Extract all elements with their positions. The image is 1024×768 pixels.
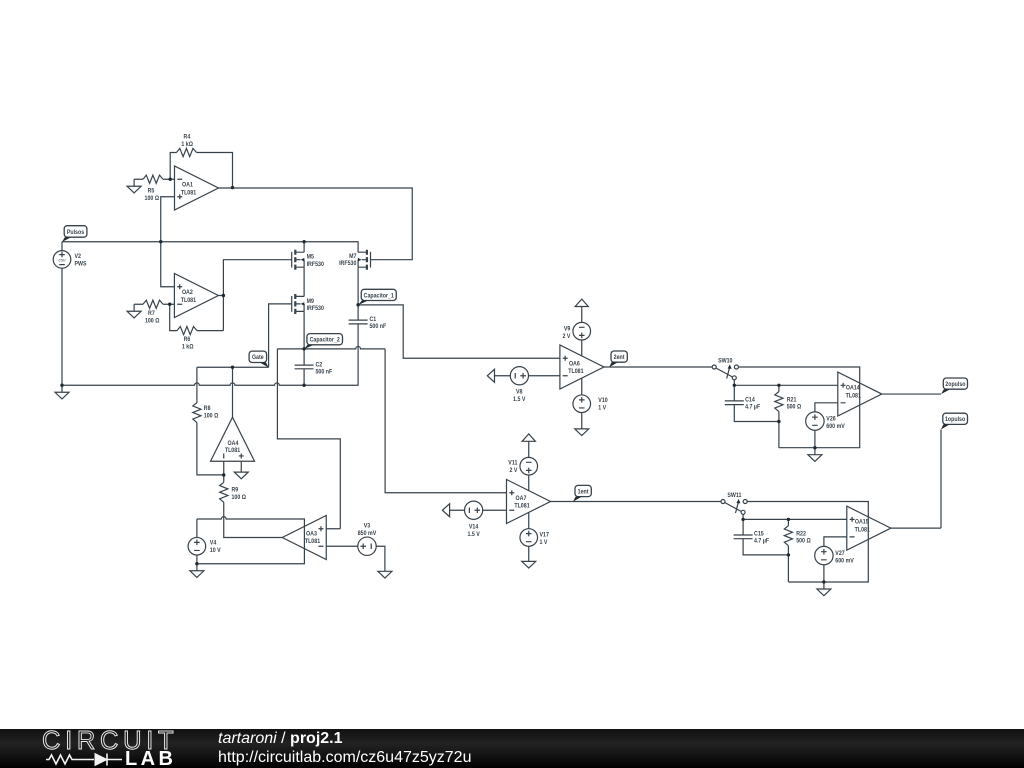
resistor R4 — [177, 148, 197, 156]
label M7 — [339, 253, 357, 267]
svg-text:TL081: TL081 — [181, 297, 197, 304]
wire: M5 source to M9 drain — [303, 267, 305, 296]
node: V4 bottom — [195, 562, 198, 565]
label V17 — [540, 532, 550, 547]
svg-text:V2: V2 — [75, 253, 82, 260]
svg-text:R22: R22 — [796, 530, 806, 537]
wire: M5 drain stub riser — [303, 242, 305, 252]
svg-text:R21: R21 — [787, 396, 797, 403]
node: Pulsos row / M5 drain — [302, 240, 305, 243]
svg-text:100 Ω: 100 Ω — [204, 412, 219, 419]
wire: C1 top lead — [357, 305, 359, 320]
wire: OA7 output to SW11 — [551, 501, 722, 503]
svg-text:TL081: TL081 — [225, 447, 241, 454]
svg-text:V11: V11 — [508, 460, 517, 467]
svg-text:V4: V4 — [210, 539, 217, 546]
svg-text:V8: V8 — [516, 388, 523, 395]
svg-text:SW10: SW10 — [718, 357, 733, 364]
svg-text:500 nF: 500 nF — [316, 369, 333, 376]
node: R21 top — [777, 384, 780, 387]
svg-text:1 kΩ: 1 kΩ — [182, 343, 194, 350]
wire: OA4 inverting input lead — [223, 461, 225, 475]
node: V26 on rail — [813, 446, 816, 449]
input arrow flag at V8 — [487, 369, 494, 382]
wire: OA15 output to 1opulso — [891, 429, 941, 528]
node: V2 ground — [60, 384, 63, 387]
ground at V3 — [378, 571, 392, 578]
V+ flag above V9 — [575, 299, 588, 306]
node: OA2 inverting — [168, 303, 171, 306]
svg-text:OA14: OA14 — [846, 384, 860, 391]
svg-text:1 V: 1 V — [598, 405, 606, 412]
svg-text:Capacitor_1: Capacitor_1 — [364, 292, 394, 299]
wire: V2 leads — [61, 242, 63, 386]
input arrow flag at V14 — [442, 504, 449, 517]
svg-text:1.5 V: 1.5 V — [513, 396, 526, 403]
wire: SW11 common down to row — [743, 514, 847, 519]
wire: V17 leads — [528, 512, 530, 561]
svg-text:100 Ω: 100 Ω — [145, 318, 160, 325]
svg-text:OA2: OA2 — [182, 289, 193, 296]
wire: ground bus with hops — [62, 324, 358, 385]
svg-text:M9: M9 — [307, 298, 315, 305]
wire: SW10 common down to row — [734, 380, 838, 386]
svg-text:C1: C1 — [370, 316, 377, 323]
flag Pulsos — [64, 226, 87, 238]
svg-text:C15: C15 — [754, 530, 764, 537]
node: C2 bottom on bus — [302, 384, 305, 387]
capacitor C14 — [725, 401, 744, 405]
label M9 — [307, 298, 325, 312]
op-amp OA3 — [282, 516, 326, 560]
wire: R8 column — [197, 367, 224, 475]
voltage source V8 — [510, 367, 528, 385]
wire: R4 feedback loop of OA1 — [170, 153, 232, 188]
label V9 — [563, 325, 571, 340]
flag Gate — [249, 351, 267, 362]
transistor M5 — [292, 250, 305, 270]
svg-text:IRF530: IRF530 — [307, 261, 325, 268]
svg-text:500 Ω: 500 Ω — [787, 403, 802, 410]
node: R8/R9/OA4- — [222, 473, 225, 476]
flag 1ent — [575, 485, 591, 496]
svg-text:C14: C14 — [745, 396, 755, 403]
voltage source V11 — [520, 457, 538, 475]
flag Capacitor_2 — [307, 334, 343, 345]
wire: OA4 output up to Gate row — [232, 367, 234, 417]
resistor R5 — [143, 175, 163, 183]
voltage source V14 — [465, 501, 483, 519]
svg-text:10 V: 10 V — [210, 547, 221, 554]
wire: OA1 output to M7 gate — [219, 188, 413, 260]
svg-text:4.7 µF: 4.7 µF — [745, 403, 760, 410]
svg-text:V9: V9 — [564, 325, 571, 332]
label V2 — [75, 253, 87, 268]
op-amp OA6 — [560, 345, 604, 389]
svg-text:1 V: 1 V — [540, 539, 548, 546]
label R22 — [796, 530, 811, 544]
label C15 — [754, 530, 769, 544]
label R8 — [204, 405, 219, 420]
label V10 — [598, 397, 608, 412]
op-amp OA15 — [847, 506, 891, 550]
svg-text:M5: M5 — [307, 254, 315, 261]
CircuitLab logo — [42, 727, 178, 756]
wire: V4 loop with hop over R9 — [197, 517, 305, 564]
transistor M7 — [358, 250, 371, 270]
logo resistor-diode glyph — [46, 754, 122, 766]
wire: V26 leads — [815, 403, 838, 448]
wire: V4 leads — [196, 519, 198, 564]
svg-text:OA6: OA6 — [569, 360, 580, 367]
svg-text:600 mV: 600 mV — [826, 423, 845, 430]
node: Pulsos row / OA1+ — [159, 240, 162, 243]
svg-text:500 Ω: 500 Ω — [796, 538, 811, 545]
svg-text:V3: V3 — [364, 522, 371, 529]
wire: Gate row — [197, 366, 269, 368]
node: R5/R4 at OA1 inverting — [169, 178, 172, 181]
svg-text:V14: V14 — [469, 523, 479, 530]
flag Capacitor_1 — [361, 289, 396, 300]
resistor R7 — [143, 300, 163, 308]
svg-text:OA1: OA1 — [182, 182, 193, 189]
svg-text:R8: R8 — [204, 405, 211, 412]
svg-text:Pulsos: Pulsos — [67, 229, 85, 236]
svg-text:TL081: TL081 — [514, 503, 530, 510]
ground at V2 — [55, 385, 69, 399]
resistor R21 — [775, 392, 783, 412]
svg-text:TL081: TL081 — [846, 392, 862, 399]
flag 2ent — [611, 351, 627, 362]
V- flag below V10 — [575, 429, 589, 436]
svg-text:SW11: SW11 — [727, 492, 741, 499]
voltage source V17 — [520, 529, 538, 547]
label C1 — [370, 316, 387, 330]
op-amp OA1 — [175, 166, 219, 210]
svg-text:V26: V26 — [826, 415, 836, 422]
label V27 — [835, 550, 854, 565]
node: V27 on rail — [822, 580, 825, 583]
svg-text:R9: R9 — [232, 487, 239, 494]
svg-text:R7: R7 — [148, 310, 155, 317]
label C2 — [316, 361, 333, 375]
wire: M5 gate from OA2 output — [218, 260, 291, 331]
op-amp OA4 — [211, 417, 255, 461]
voltage source V2 (CSV/PWS) — [53, 251, 71, 269]
V+ flag above V11 — [522, 434, 535, 441]
voltage source V9 — [573, 322, 591, 340]
capacitor C15 — [734, 535, 753, 539]
svg-text:IRF530: IRF530 — [307, 305, 325, 312]
svg-text:100 Ω: 100 Ω — [145, 195, 160, 202]
ground at V4 — [190, 564, 204, 578]
voltage source V4 — [188, 537, 206, 555]
wire: OA4 non-inverting input to ground — [240, 461, 242, 472]
wire: Capacitor_1 node to OA6 non-inverting input — [358, 305, 560, 358]
label C14 — [745, 396, 760, 410]
svg-text:Capacitor_2: Capacitor_2 — [310, 337, 340, 344]
wire: Pulsos row to M5/M7 drains — [62, 242, 358, 252]
node: Gate row / OA4 output — [231, 366, 234, 369]
svg-text:TL081: TL081 — [568, 368, 584, 375]
svg-text:OA7: OA7 — [516, 495, 527, 502]
svg-text:R6: R6 — [184, 336, 191, 343]
wire: V27 leads — [824, 537, 847, 582]
node: R21/C14 bottom — [777, 420, 780, 423]
net flags — [62, 226, 968, 502]
op-amp OA2 — [174, 274, 218, 318]
svg-text:C2: C2 — [316, 361, 323, 368]
resistor R9 — [220, 482, 228, 502]
wire: C15 column — [743, 519, 788, 555]
label M5 — [307, 254, 325, 268]
wire: M9 source down through C2 to bus — [303, 311, 305, 385]
wire: V9 leads — [581, 307, 583, 356]
svg-text:500 nF: 500 nF — [370, 323, 387, 330]
wire: R6 feedback row of OA2 — [170, 304, 224, 330]
svg-text:1opulso: 1opulso — [945, 416, 965, 423]
op-amp OA7 — [507, 480, 551, 524]
node: Capacitor_1 — [356, 303, 359, 306]
wire: V8 to OA6 inverting input — [495, 375, 560, 377]
svg-text:OA3: OA3 — [306, 530, 317, 537]
svg-text:2 V: 2 V — [563, 333, 571, 340]
node: Capacitor_2 — [302, 347, 305, 350]
svg-text:OA15: OA15 — [855, 518, 869, 525]
flag 2opulso — [943, 378, 967, 389]
wire: SW10 feedback loop to bottom rail — [738, 367, 859, 448]
label R9 — [232, 487, 247, 502]
svg-text:PWS: PWS — [75, 260, 87, 267]
node: R22/C15 bottom — [787, 553, 790, 556]
wire: OA1 non-inverting input down to Pulsos net and OA2 — [161, 197, 175, 287]
label R21 — [787, 396, 802, 410]
wire: Capacitor_2 row down to OA7 non-inverting input — [385, 349, 506, 493]
node: OA1 output/feedback — [231, 186, 234, 189]
node: SW11 common row — [741, 518, 744, 521]
svg-text:IRF530: IRF530 — [339, 260, 357, 267]
wire: Capacitor_2 row down to OA3 non-inverting input — [277, 349, 340, 529]
flag 1opulso — [943, 413, 968, 424]
wire: SW11 feedback loop to bottom rail — [747, 502, 868, 583]
wire: V14 to OA7 inverting input — [450, 509, 507, 511]
ground at OA4 — [234, 472, 248, 479]
svg-text:2opulso: 2opulso — [945, 381, 965, 388]
ground at V27 — [817, 582, 831, 596]
transistor M9 — [292, 294, 305, 314]
wire: V10 leads — [581, 378, 583, 429]
svg-text:M7: M7 — [349, 253, 357, 260]
wire: R7 to OA2 inverting input — [134, 303, 174, 305]
resistor R6 — [177, 327, 197, 335]
wire: Capacitor_2 row — [277, 346, 385, 348]
svg-text:R4: R4 — [184, 133, 191, 140]
svg-text:TL081: TL081 — [181, 189, 197, 196]
ground at R7 — [127, 304, 141, 318]
voltage source V3 — [358, 537, 376, 555]
svg-text:600 mV: 600 mV — [835, 557, 854, 564]
label V11 — [508, 460, 518, 475]
node: R22 top — [787, 518, 790, 521]
voltage source V10 — [573, 395, 591, 413]
wire: C14 column — [734, 385, 779, 421]
svg-text:2ent: 2ent — [614, 354, 626, 361]
svg-text:1.5 V: 1.5 V — [467, 531, 480, 538]
wire: OA3 inverting input to V3 — [326, 546, 385, 571]
svg-text:TL081: TL081 — [305, 538, 321, 545]
capacitor C1 — [349, 320, 368, 324]
ground at R5 — [127, 179, 141, 193]
svg-text:2 V: 2 V — [510, 467, 518, 474]
resistor R21 column — [778, 385, 780, 447]
voltage source V26 — [806, 412, 824, 430]
svg-text:R5: R5 — [148, 188, 155, 195]
svg-text:100 Ω: 100 Ω — [232, 494, 247, 501]
resistor R22 — [784, 526, 792, 546]
wire: M7 source to Capacitor_1 node — [357, 267, 359, 305]
wire: R5 to OA1 inverting input — [134, 178, 174, 180]
voltage source V27 — [815, 546, 833, 564]
label V26 — [826, 415, 845, 430]
wire: M9 gate to Gate net — [269, 304, 292, 368]
svg-text:1ent: 1ent — [578, 488, 590, 495]
resistor R22 column — [787, 519, 789, 582]
ground at V26 — [808, 448, 822, 462]
svg-text:V17: V17 — [540, 532, 550, 539]
svg-text:V10: V10 — [598, 397, 608, 404]
svg-text:TL081: TL081 — [855, 526, 871, 533]
svg-text:4.7 µF: 4.7 µF — [754, 538, 769, 545]
wire: OA6 output to SW10 — [604, 366, 712, 368]
wire: V11 leads — [528, 441, 530, 490]
resistor R8 — [193, 403, 201, 423]
svg-text:1 kΩ: 1 kΩ — [181, 141, 193, 148]
node: SW10 common row — [733, 384, 736, 387]
svg-text:V27: V27 — [835, 550, 845, 557]
switch SW10 — [712, 365, 738, 380]
svg-text:Gate: Gate — [252, 354, 264, 361]
V- flag below V17 — [522, 561, 536, 568]
op-amp OA14 — [838, 372, 882, 416]
svg-text:850 mV: 850 mV — [358, 530, 377, 537]
wire: R9 column to OA3 output — [224, 475, 283, 538]
svg-text:csv: csv — [59, 258, 67, 263]
node: OA2 output — [222, 294, 225, 297]
wire: OA14 output to 2opulso — [882, 393, 941, 395]
label V4 — [210, 539, 221, 554]
capacitor C2 — [295, 365, 314, 369]
switch SW11 — [721, 499, 747, 514]
